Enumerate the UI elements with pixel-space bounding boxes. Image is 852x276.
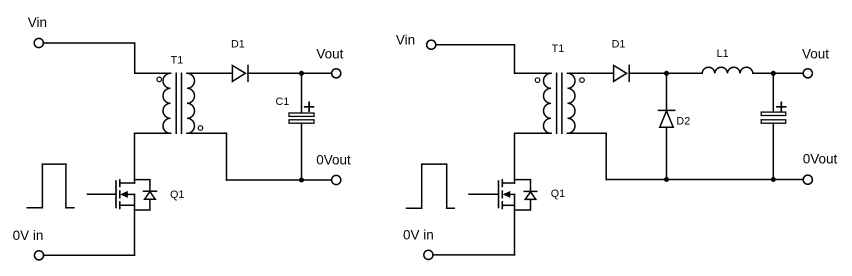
gate drive pulse waveform (right): [407, 164, 455, 208]
inductor L1: [702, 67, 753, 73]
transformer T1 secondary winding (right): [568, 73, 576, 133]
label T1 (right): [552, 43, 565, 55]
label D1 (right): [612, 38, 626, 50]
svg-text:C1: C1: [276, 96, 290, 108]
terminal Vin (right): [427, 40, 436, 49]
wire 0Vout rail (left): [227, 179, 332, 181]
polarity plus sign output capacitor: [777, 102, 786, 111]
wire Vin terminal to T1 primary top: [43, 43, 170, 73]
transformer T1 core (right): [557, 73, 562, 133]
junction dot Vout node (right): [771, 71, 776, 76]
label Vin (right): [396, 32, 415, 47]
junction dot D2 bottom node: [664, 177, 669, 182]
wire Q1 source to 0V in rail (right): [514, 194, 516, 255]
wire L1 to Vout terminal (right): [753, 72, 803, 74]
transformer T1 secondary phase dot (left): [198, 126, 203, 131]
wire output capacitor bottom to 0Vout rail: [772, 123, 774, 179]
svg-text:D1: D1: [231, 39, 245, 51]
capacitor C1 bottom plate: [289, 120, 314, 123]
capacitor C1 top plate: [289, 113, 314, 116]
label C1: [276, 96, 290, 108]
terminal Vin (left): [34, 38, 43, 47]
svg-text:T1: T1: [171, 54, 184, 66]
transformer T1 primary winding (left): [163, 73, 171, 133]
wire T1 secondary bottom to 0Vout rail (right): [568, 133, 607, 179]
svg-text:0V in: 0V in: [13, 228, 44, 243]
junction dot D2 top node: [664, 71, 669, 76]
wire T1 secondary bottom to 0Vout rail: [187, 133, 227, 180]
wire 0Vout rail (right): [606, 179, 803, 181]
body diode of Q1 (left): [135, 180, 157, 210]
svg-text:Vin: Vin: [28, 15, 47, 30]
label 0Vout (right): [803, 152, 838, 167]
wire Vin terminal to T1 primary top (right): [436, 45, 551, 74]
polarity plus sign C1: [305, 102, 314, 111]
svg-text:D2: D2: [676, 116, 690, 128]
transformer T1 primary phase dot (right): [535, 78, 540, 83]
svg-text:Vout: Vout: [316, 46, 343, 61]
wire T1 primary bottom to Q1 drain (right): [515, 133, 552, 183]
transformer T1 primary winding (right): [544, 73, 552, 133]
label 0V in (right): [403, 227, 434, 242]
label Q1 (right): [551, 188, 565, 200]
svg-text:0Vout: 0Vout: [316, 153, 351, 168]
wire Q1 source to 0V in rail: [134, 194, 136, 255]
svg-text:0Vout: 0Vout: [803, 152, 838, 167]
output capacitor top plate: [761, 112, 786, 115]
terminal Vout (right): [803, 69, 812, 78]
svg-text:Q1: Q1: [551, 188, 565, 200]
transformer T1 core (left): [176, 73, 181, 133]
wire 0V in terminal to Q1 source (right): [433, 254, 515, 256]
output capacitor bottom plate: [761, 120, 786, 123]
label D1 (left): [231, 39, 245, 51]
label 0Vout (left): [316, 153, 351, 168]
label Q1 (left): [170, 189, 184, 201]
wire T1 primary bottom to Q1 drain: [135, 133, 171, 183]
diode D1 (left): [232, 65, 248, 81]
diode D2: [659, 73, 675, 179]
junction dot capacitor bottom node: [771, 177, 776, 182]
wire Vout node to output capacitor top: [772, 73, 774, 112]
svg-text:0V in: 0V in: [403, 227, 434, 242]
label Vout (right): [802, 46, 829, 61]
svg-text:L1: L1: [717, 48, 729, 60]
svg-text:T1: T1: [552, 43, 565, 55]
transformer T1 secondary phase dot (right): [580, 78, 585, 83]
transformer T1 secondary winding (left): [187, 73, 195, 133]
body diode of Q1 (right): [515, 180, 537, 210]
label 0V in (left): [13, 228, 44, 243]
transistor Q1 (right) MOSFET: [469, 180, 515, 209]
svg-text:D1: D1: [612, 38, 626, 50]
wire C1 bottom to 0Vout rail: [301, 123, 303, 180]
terminal Vout (left): [332, 69, 341, 78]
label L1: [717, 48, 729, 60]
transistor Q1 (left) MOSFET: [88, 180, 135, 209]
wire 0V in terminal to Q1 source: [44, 254, 135, 256]
label T1 (left): [171, 54, 184, 66]
terminal 0Vout (right): [803, 175, 812, 184]
label D2: [676, 116, 690, 128]
gate drive pulse waveform (left): [27, 164, 74, 208]
label Vin (left): [28, 15, 47, 30]
diode D1 (right): [614, 65, 630, 81]
svg-text:Q1: Q1: [170, 189, 184, 201]
junction dot Vout node (left): [299, 71, 304, 76]
wire Vout node to C1 top: [301, 73, 303, 113]
terminal 0V in (right): [424, 250, 433, 259]
transformer T1 primary phase dot (left): [157, 77, 162, 82]
wire T1 secondary top to D1 anode: [187, 72, 232, 74]
wire T1 secondary top to D1 anode (right): [568, 72, 614, 74]
label Vout (left): [316, 46, 343, 61]
svg-text:Vout: Vout: [802, 46, 829, 61]
terminal 0V in (left): [34, 251, 43, 260]
terminal 0Vout (left): [332, 175, 341, 184]
svg-text:Vin: Vin: [396, 32, 415, 47]
junction dot 0Vout node (left): [299, 178, 304, 183]
wire D1 cathode to L1: [629, 72, 702, 74]
wire D1 cathode to Vout terminal: [248, 72, 332, 74]
